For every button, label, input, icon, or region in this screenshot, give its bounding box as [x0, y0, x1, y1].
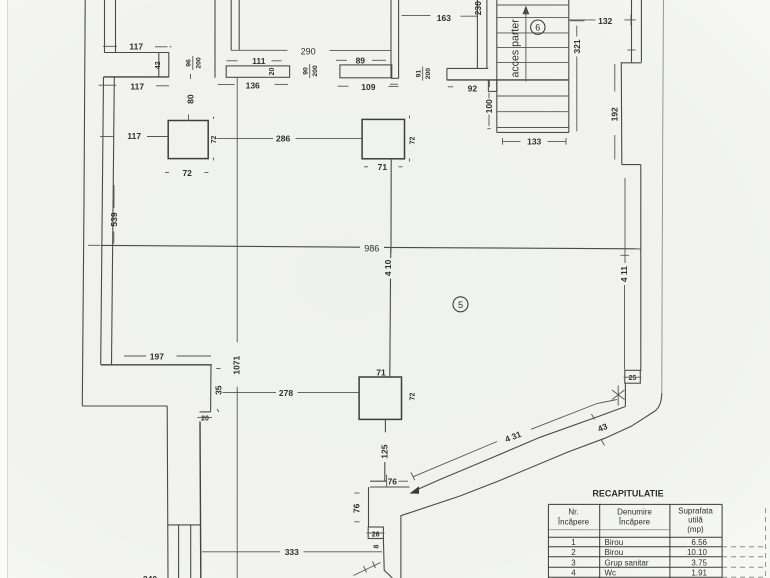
dimension 1071: [232, 78, 242, 578]
svg-text:117: 117: [130, 82, 144, 92]
svg-text:3.75: 3.75: [691, 558, 707, 567]
dimension 321: [570, 21, 585, 132]
wall right top pair: [632, 0, 642, 62]
dimension 986 line: [101, 243, 641, 253]
svg-text:90: 90: [303, 67, 310, 75]
dimension 197: [124, 352, 211, 362]
outer boundary right upper: [662, 0, 664, 393]
svg-text:Suprafata: Suprafata: [678, 507, 713, 516]
label 76 vertical: [352, 493, 362, 522]
tick on left wall: [103, 45, 117, 47]
svg-text:240: 240: [143, 574, 157, 578]
dimension 133: [503, 137, 567, 147]
svg-text:42: 42: [155, 61, 162, 69]
svg-text:6: 6: [535, 23, 540, 33]
svg-text:89: 89: [356, 55, 366, 65]
svg-text:acces parter: acces parter: [510, 19, 522, 78]
svg-text:4 11: 4 11: [619, 266, 629, 282]
P1 side dots: [213, 117, 215, 161]
P2 side dots: [409, 116, 411, 162]
svg-text:111: 111: [252, 56, 266, 66]
dimension 132: [568, 15, 636, 26]
vestibule wall left: [368, 487, 370, 527]
label 91/200: [416, 67, 433, 81]
wall left outer: [82, 0, 85, 406]
pillar P1 top tick: [188, 115, 190, 122]
svg-text:4: 4: [571, 569, 576, 578]
wire center vertical lower: [389, 279, 392, 378]
svg-text:197: 197: [150, 352, 164, 362]
dimension 333: [202, 547, 382, 557]
wall column two: [215, 0, 239, 78]
svg-text:10.10: 10.10: [687, 548, 708, 557]
dimension 290: [231, 46, 391, 56]
dimension 192: [610, 64, 620, 160]
wire below P3: [384, 419, 386, 432]
circled 6: [531, 20, 545, 34]
svg-text:333: 333: [285, 547, 299, 557]
label 410: [383, 248, 393, 277]
dimension 278: [223, 388, 360, 398]
staircase: [497, 0, 569, 132]
svg-text:72: 72: [410, 393, 417, 401]
wall band upper-left bottom line: [104, 76, 169, 78]
svg-text:4 10: 4 10: [383, 259, 393, 276]
svg-text:2: 2: [571, 548, 576, 557]
outer boundary right lower: [401, 393, 662, 578]
wall bottom-left band: [101, 364, 212, 366]
dimension 286: [216, 134, 362, 144]
svg-text:26: 26: [372, 531, 380, 538]
dimension 111: [227, 56, 282, 66]
svg-text:(mp): (mp): [687, 525, 704, 534]
tick below 96/200: [190, 74, 192, 79]
dimension 117 third: [100, 131, 168, 141]
svg-text:25: 25: [629, 375, 637, 382]
wall left inner pair upper: [105, 0, 116, 53]
svg-text:72: 72: [211, 136, 218, 144]
svg-text:200: 200: [195, 57, 202, 69]
stair treads: [497, 5, 569, 128]
svg-text:1071: 1071: [232, 355, 242, 374]
svg-text:76: 76: [388, 477, 398, 487]
svg-text:1.91: 1.91: [691, 569, 707, 578]
dimension 109: [338, 82, 399, 92]
dimension 136: [218, 80, 288, 90]
landing wall top: [447, 67, 488, 69]
level marker 26: [612, 386, 625, 406]
svg-text:986: 986: [364, 243, 379, 253]
dimension 117 second: [99, 82, 170, 92]
svg-text:136: 136: [246, 80, 260, 90]
door box 42: [159, 52, 169, 78]
wall band upper-left top line: [105, 52, 169, 54]
986 junction tick: [390, 243, 392, 253]
wire center vertical upper: [390, 159, 392, 248]
door triangle: [410, 486, 420, 494]
pillar P1: [168, 121, 208, 159]
label 35: [213, 369, 223, 413]
svg-text:Nr.: Nr.: [568, 508, 578, 517]
svg-text:3: 3: [571, 558, 576, 567]
dimension 100: [484, 93, 494, 129]
door swing bottom: [354, 562, 381, 576]
dimension 92: [448, 81, 490, 94]
svg-text:286: 286: [276, 134, 290, 144]
svg-text:Încăpere: Încăpere: [618, 518, 651, 527]
label 72 under P1: [165, 168, 209, 178]
dimension 163: [402, 13, 478, 23]
table header text: [557, 507, 713, 535]
svg-text:1: 1: [571, 538, 576, 547]
dimension 411: [619, 178, 629, 370]
window 136: [226, 66, 289, 77]
vestibule wall right lower: [383, 539, 392, 578]
svg-text:133: 133: [527, 137, 541, 147]
vestibule wall top lines: [370, 481, 409, 487]
wall right step: [621, 63, 642, 165]
tick on outer boundary: [602, 440, 605, 446]
svg-text:71: 71: [378, 162, 388, 172]
svg-text:230: 230: [473, 1, 483, 15]
label 90/200: [303, 64, 320, 78]
notch below stairs wall: [488, 80, 496, 91]
svg-text:539: 539: [109, 212, 119, 226]
diagonal wall stub: [624, 384, 626, 407]
table grid: [548, 504, 722, 578]
wall outer bottom-left: [82, 406, 168, 578]
left scan strip edge: [7, 0, 9, 578]
svg-text:6.56: 6.56: [691, 538, 707, 547]
svg-text:utilă: utilă: [688, 516, 703, 525]
svg-text:200: 200: [425, 68, 432, 80]
svg-text:290: 290: [301, 46, 316, 56]
svg-text:200: 200: [312, 65, 319, 77]
svg-text:125: 125: [379, 444, 389, 458]
table grid dashes right: [722, 508, 767, 578]
diagonal wall line A: [418, 407, 626, 490]
dimension 117 first: [129, 42, 171, 52]
wall segment below 20: [199, 422, 202, 578]
svg-text:20: 20: [269, 68, 276, 76]
circled 5: [453, 297, 468, 312]
pillar P2: [362, 119, 404, 158]
svg-text:96: 96: [186, 59, 193, 67]
svg-text:RECAPITULATIE: RECAPITULATIE: [592, 489, 663, 499]
svg-text:132: 132: [598, 16, 612, 26]
svg-text:Birou: Birou: [605, 538, 624, 547]
svg-text:5: 5: [458, 300, 463, 310]
svg-text:72: 72: [410, 137, 417, 145]
svg-text:321: 321: [572, 39, 582, 53]
box 25: [624, 370, 642, 383]
wall corner piece: [210, 365, 212, 412]
svg-text:109: 109: [361, 82, 375, 92]
box 26: [367, 527, 385, 539]
svg-text:92: 92: [468, 83, 478, 93]
door mark 20: [198, 412, 213, 423]
svg-text:76: 76: [352, 503, 362, 513]
svg-text:91: 91: [416, 70, 423, 78]
diagonal dimension line: [411, 400, 617, 481]
label 125: [379, 444, 389, 481]
svg-text:Wc: Wc: [605, 569, 617, 578]
left scan strip: [0, 0, 7, 578]
landing wall left cap: [446, 68, 448, 80]
hatched wall block: [168, 525, 201, 578]
svg-text:Grup sanitar: Grup sanitar: [605, 558, 649, 567]
wall column three: [391, 0, 399, 78]
svg-text:117: 117: [127, 131, 141, 141]
svg-text:278: 278: [279, 388, 293, 398]
dimension 539: [109, 185, 119, 244]
svg-text:163: 163: [437, 13, 451, 23]
svg-text:35: 35: [213, 385, 223, 395]
wall left inner pair lower: [101, 77, 115, 365]
svg-text:80: 80: [185, 94, 195, 104]
wall right main: [640, 165, 642, 371]
pillar P3: [359, 377, 401, 419]
svg-text:Încăpere: Încăpere: [557, 518, 590, 527]
svg-text:100: 100: [484, 99, 494, 113]
svg-text:72: 72: [182, 168, 192, 178]
label 96/200: [186, 56, 203, 70]
table header sub-line: [548, 529, 670, 531]
landing wall bottom: [447, 79, 569, 81]
stair left wall pair: [477, 0, 487, 69]
tick on right wall centerline: [628, 49, 636, 51]
svg-text:192: 192: [610, 107, 620, 121]
label 71 under P2: [364, 162, 403, 172]
svg-text:Denumire: Denumire: [617, 508, 652, 517]
dimension 89: [336, 55, 386, 65]
table rows text: [571, 538, 707, 578]
svg-text:117: 117: [129, 42, 143, 52]
svg-text:8: 8: [374, 544, 381, 548]
svg-text:71: 71: [376, 367, 386, 377]
stair arrow: [523, 6, 530, 82]
svg-text:Birou: Birou: [605, 548, 624, 557]
svg-text:20: 20: [201, 416, 209, 423]
window 109: [340, 65, 392, 78]
986 left tick: [88, 244, 100, 246]
label 76 horizontal: [387, 475, 408, 488]
